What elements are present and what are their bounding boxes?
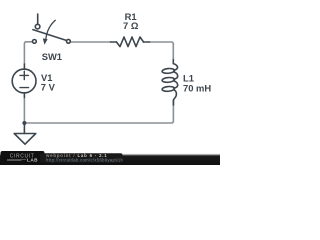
inductor L1 bbox=[162, 60, 178, 106]
resistor R1 bbox=[111, 37, 150, 47]
svg-text:SW1: SW1 bbox=[42, 51, 62, 62]
V1 circle bbox=[12, 69, 36, 93]
inductor L1 loop 2 bbox=[162, 77, 175, 83]
wire: resistor R1 to top-right corner down to inductor L1 bbox=[150, 42, 174, 60]
switch SW1 bbox=[33, 14, 71, 45]
svg-text:7 Ω: 7 Ω bbox=[123, 20, 139, 31]
watermark logo box bbox=[1, 151, 45, 165]
inductor L1 exit curl bbox=[173, 90, 176, 100]
ground symbol bbox=[14, 123, 36, 144]
inductor L1 bottom stub bbox=[172, 100, 174, 105]
wire: inductor L1 bottom to bottom-right corner to junction bbox=[26, 100, 173, 123]
inductor L1 entry curl bbox=[173, 64, 177, 70]
wire: switch right contact to resistor R1 bbox=[71, 41, 111, 43]
svg-text:7 V: 7 V bbox=[41, 82, 56, 93]
svg-text:70 mH: 70 mH bbox=[183, 83, 211, 94]
switch SW1 actuation arrow bbox=[46, 20, 55, 38]
inductor L1 loop 3 bbox=[162, 86, 175, 92]
inductor L1 curl 1-2 bbox=[174, 72, 178, 79]
ground stub bbox=[23, 123, 25, 134]
svg-text:LAB: LAB bbox=[27, 157, 38, 162]
junction node dot bbox=[22, 121, 26, 125]
resistor R1 left lead bbox=[111, 41, 117, 43]
inductor L1 loop 1 bbox=[162, 68, 175, 74]
watermark info box bbox=[40, 153, 123, 162]
inductor L1 curl 2-3 bbox=[174, 81, 178, 88]
V1 plus sign bbox=[20, 71, 29, 79]
switch SW1 blade bbox=[33, 30, 66, 41]
ground triangle bbox=[14, 134, 36, 145]
switch SW1 left contact circle bbox=[33, 40, 37, 44]
V1 bottom stub bbox=[23, 93, 25, 98]
wire: switch left contact to V1 top (left rail) bbox=[24, 42, 32, 64]
V1 minus sign bbox=[20, 87, 29, 89]
switch SW1 right contact circle bbox=[67, 39, 71, 43]
switch SW1 top terminal stub bbox=[37, 14, 39, 24]
switch SW1 top terminal circle bbox=[35, 24, 40, 29]
wire: V1 bottom to ground junction bbox=[23, 98, 25, 124]
V1 top stub bbox=[23, 64, 25, 69]
switch SW1 arrow head bbox=[43, 38, 48, 44]
svg-text:http://circuitlab.com/c/x56b9y: http://circuitlab.com/c/x56b9yap91h bbox=[46, 157, 124, 162]
voltage source V1 bbox=[12, 64, 36, 98]
inductor L1 top stub bbox=[172, 60, 174, 64]
watermark LAB logo row bbox=[7, 159, 26, 160]
resistor R1 zigzag bbox=[117, 37, 144, 47]
resistor R1 right lead bbox=[144, 41, 150, 43]
